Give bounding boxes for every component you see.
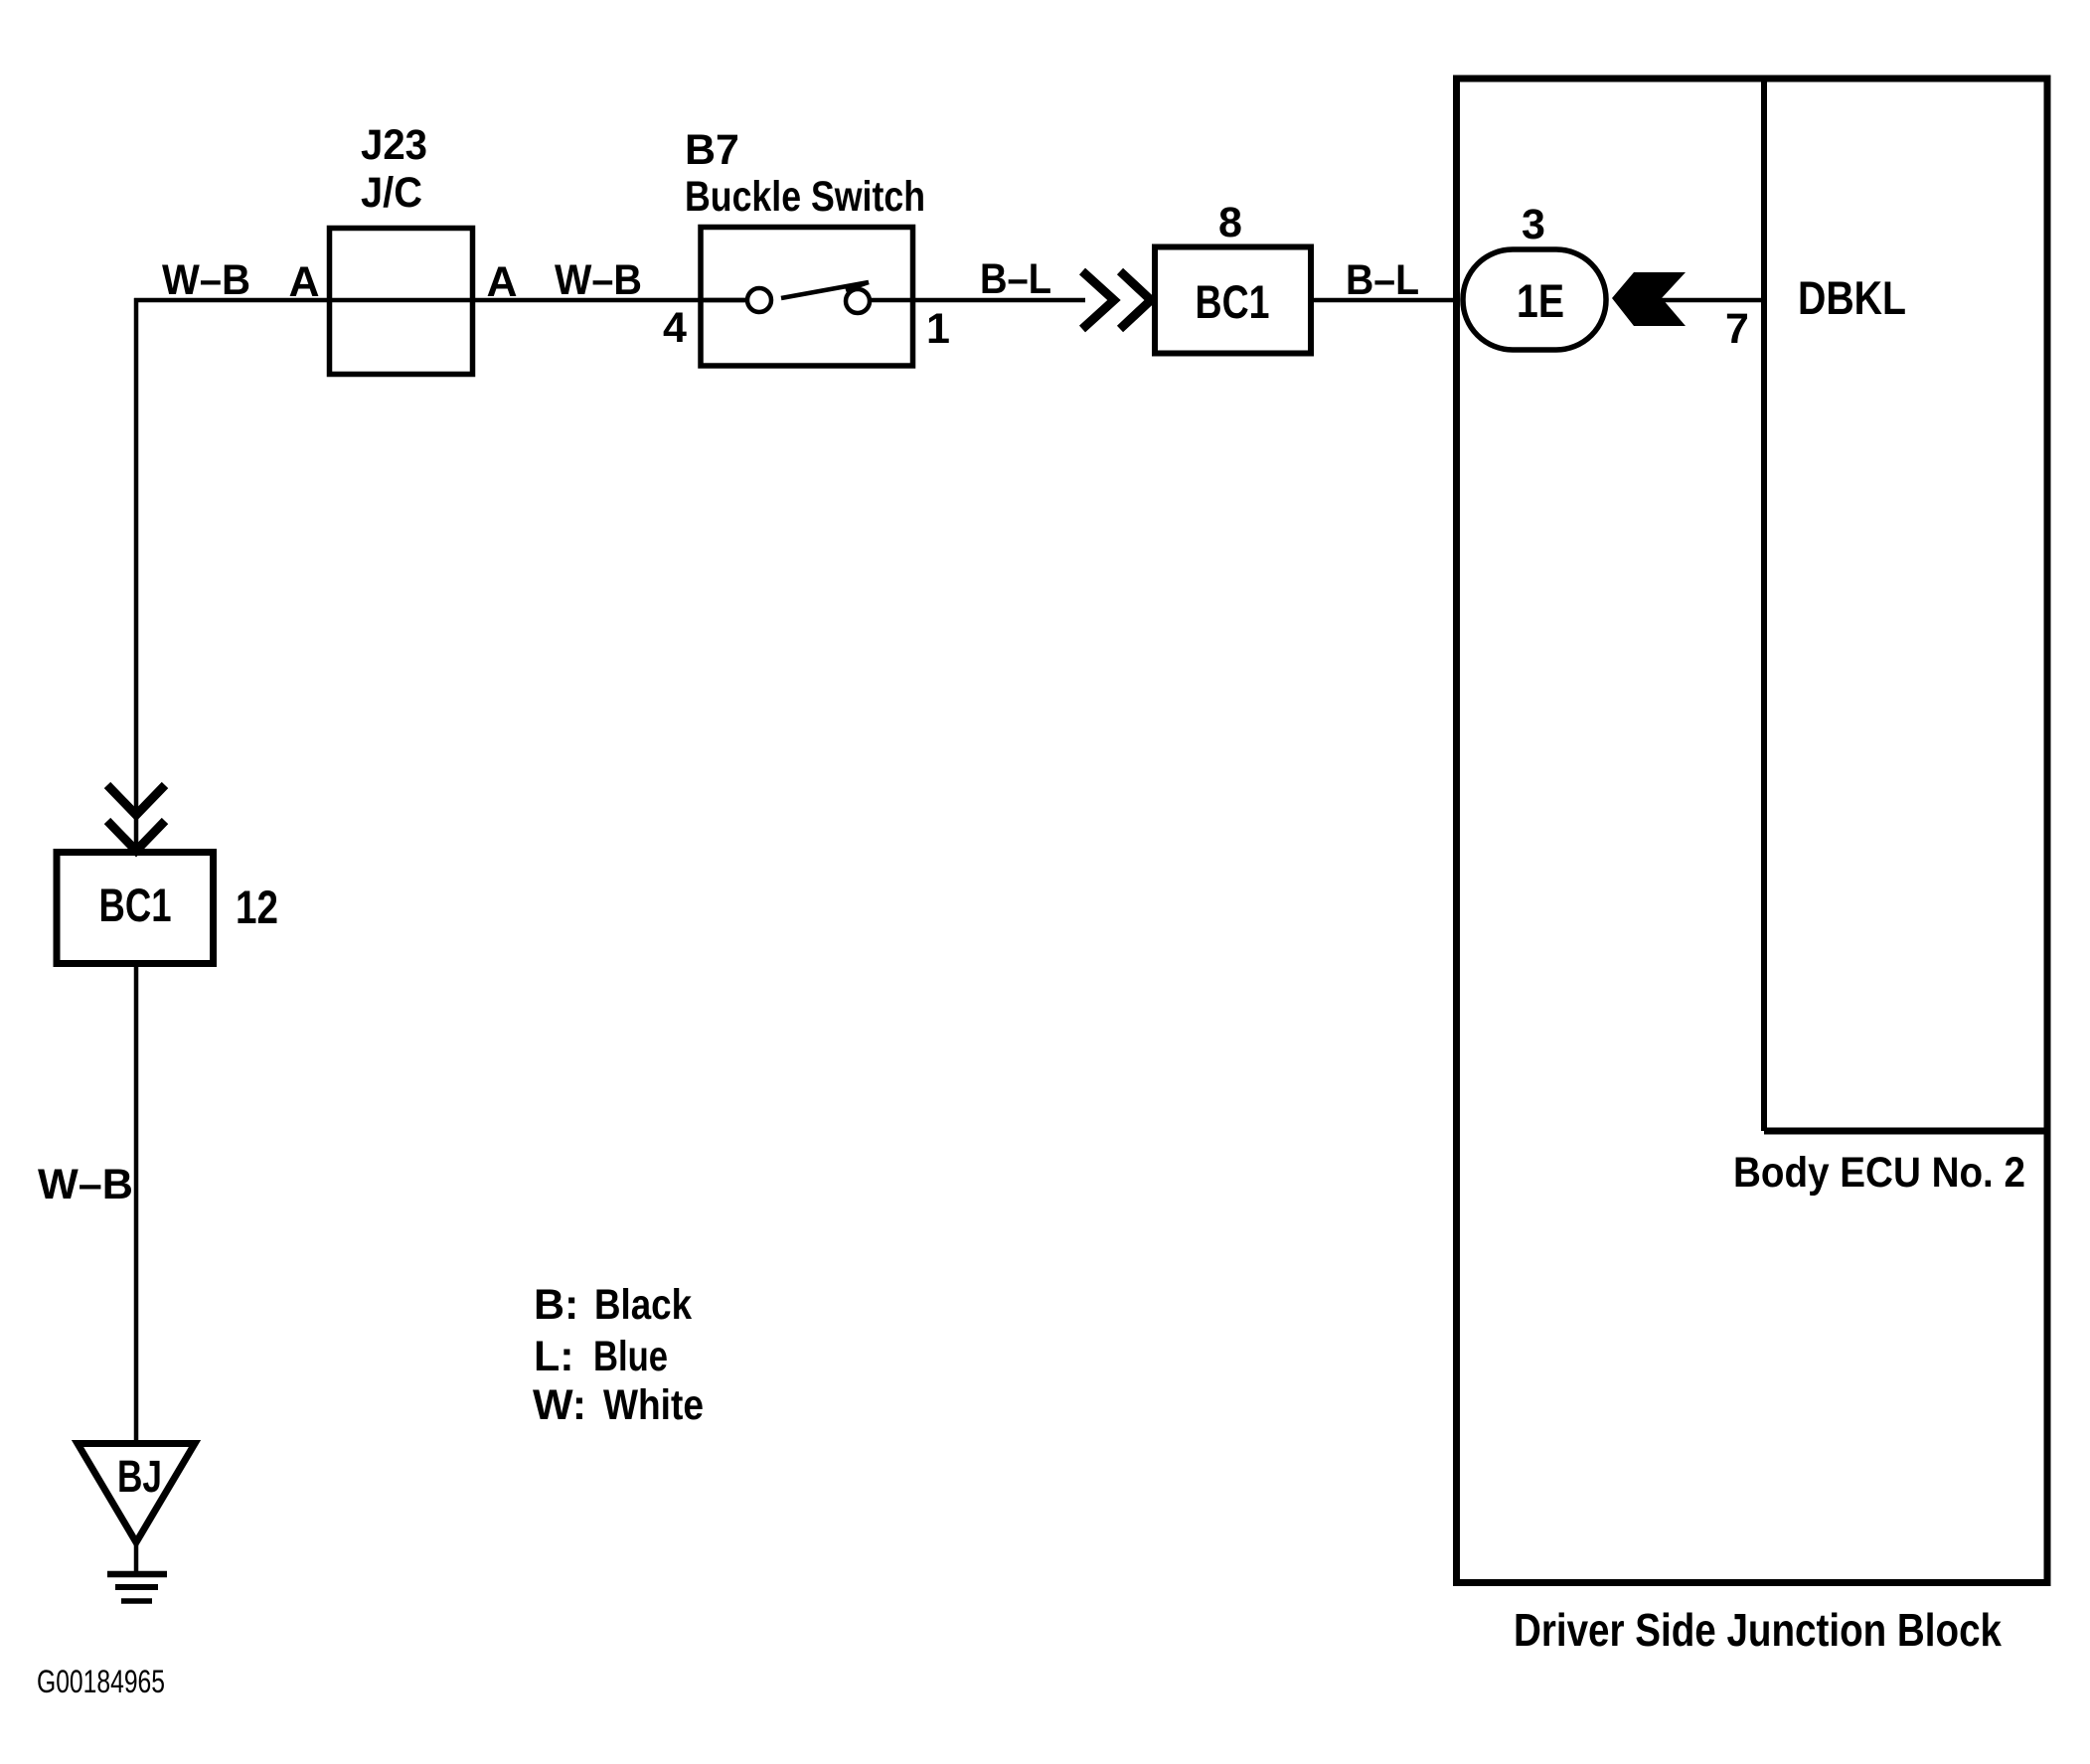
- connector BC1 box (bottom, pin 12): [57, 853, 214, 964]
- svg-text:A: A: [288, 258, 319, 306]
- in-line connector chevron 2: [1120, 271, 1151, 329]
- connector BC1 box (top): [1155, 247, 1311, 354]
- svg-text:J23: J23: [361, 121, 427, 169]
- svg-text:BJ: BJ: [117, 1451, 162, 1502]
- svg-text:7: 7: [1725, 305, 1749, 353]
- junction block cavity connector 1E stadium: [1463, 249, 1606, 350]
- wire W-B vertical left drop: [134, 298, 139, 849]
- svg-text:W:: W:: [533, 1381, 586, 1429]
- svg-text:W–B: W–B: [162, 256, 250, 304]
- wire from buckle switch to in-line connector arrows (B-L): [870, 298, 1085, 303]
- svg-text:Body ECU No. 2: Body ECU No. 2: [1733, 1149, 2025, 1197]
- wire DBKL inside junction block: [1645, 298, 1764, 303]
- svg-text:White: White: [603, 1381, 704, 1429]
- junction connector J23 J/C box: [330, 229, 473, 375]
- svg-text:G00184965: G00184965: [37, 1664, 165, 1699]
- wire stub from BJ apex to ground: [134, 1540, 139, 1573]
- svg-text:B7: B7: [685, 126, 739, 174]
- svg-text:1: 1: [926, 305, 950, 353]
- Driver Side Junction Block outline: [1457, 79, 2048, 1583]
- svg-text:3: 3: [1522, 201, 1545, 248]
- switch lever: [781, 282, 869, 298]
- Body ECU No. 2 inner partition vertical line: [1761, 79, 1767, 1131]
- svg-text:A: A: [486, 258, 517, 306]
- svg-text:B–L: B–L: [980, 255, 1051, 303]
- ground bar 2: [115, 1584, 158, 1590]
- svg-text:J/C: J/C: [361, 169, 422, 217]
- down chevron 1 on left drop: [107, 785, 165, 815]
- switch lever hook: [846, 282, 869, 290]
- solid arrow into 1E (DBKL feed): [1612, 272, 1686, 326]
- svg-text:Buckle Switch: Buckle Switch: [685, 173, 925, 221]
- switch contact circle right: [846, 289, 870, 313]
- wire W-B from BC1 pin 12 down to ground BJ: [134, 967, 139, 1443]
- svg-text:BC1: BC1: [99, 879, 172, 931]
- svg-text:L:: L:: [534, 1333, 574, 1380]
- ground bar 3: [121, 1598, 152, 1604]
- svg-text:BC1: BC1: [1196, 275, 1270, 328]
- svg-text:1E: 1E: [1517, 274, 1564, 327]
- buckle switch B7 box: [701, 228, 913, 367]
- svg-text:8: 8: [1218, 199, 1242, 246]
- Body ECU No. 2 inner partition bottom line: [1764, 1128, 2046, 1135]
- switch wire inside box left: [701, 298, 747, 303]
- in-line connector chevron 1: [1082, 271, 1114, 329]
- svg-text:W–B: W–B: [555, 256, 642, 304]
- ground triangle BJ: [78, 1444, 195, 1543]
- svg-text:B–L: B–L: [1346, 256, 1419, 304]
- svg-text:DBKL: DBKL: [1798, 271, 1906, 324]
- wire W-B main horizontal segment from corner through J23 to buckle switch: [134, 298, 747, 303]
- wire B-L from connector BC1 to junction block: [1311, 298, 1460, 303]
- svg-text:B:: B:: [534, 1281, 578, 1329]
- down chevron 2 on left drop: [107, 821, 165, 851]
- svg-text:Driver Side Junction Block: Driver Side Junction Block: [1514, 1604, 2002, 1656]
- ground bar 1: [107, 1571, 167, 1578]
- svg-text:4: 4: [663, 304, 687, 352]
- switch contact circle left: [747, 288, 771, 312]
- svg-text:Black: Black: [594, 1281, 692, 1329]
- svg-text:12: 12: [236, 881, 278, 933]
- svg-text:W–B: W–B: [38, 1161, 133, 1208]
- svg-text:Blue: Blue: [593, 1333, 668, 1380]
